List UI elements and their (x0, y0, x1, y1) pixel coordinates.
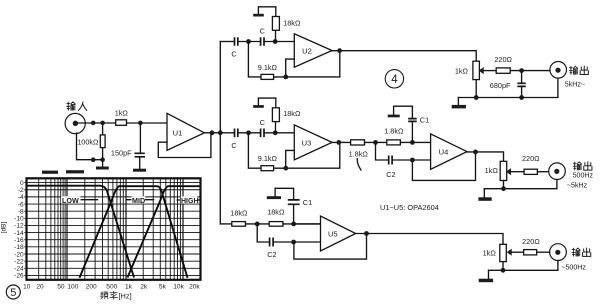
node dot U2 nA (246, 39, 251, 44)
svg-text:500Hz: 500Hz (573, 171, 594, 179)
svg-text:-20: -20 (14, 251, 24, 258)
node dot U2 fb (283, 75, 288, 80)
MID label (132, 196, 146, 205)
node dot b2 (100, 157, 105, 162)
wire (265, 41, 295, 43)
wire pot B wiper to 220 (511, 171, 524, 173)
output RCA connector A (550, 62, 567, 79)
svg-text:C: C (231, 50, 236, 59)
wire U3 feedback bottom (248, 133, 339, 168)
wire (238, 132, 260, 134)
node dot A3 (474, 95, 479, 100)
node dot U1 out (210, 130, 215, 135)
wire U2 inverting input stub (286, 59, 295, 77)
wire vertical distribution branch (219, 42, 221, 224)
svg-text:LOW: LOW (62, 196, 79, 205)
svg-text:-6: -6 (18, 201, 24, 208)
svg-text:HIGH: HIGH (181, 198, 199, 205)
node dot A1 (519, 68, 524, 73)
node dot U2 out (337, 48, 342, 53)
svg-text:1kΩ: 1kΩ (455, 67, 469, 76)
svg-text:5k: 5k (159, 283, 167, 290)
svg-text:18kΩ: 18kΩ (283, 18, 301, 27)
node dot U3 nB (273, 130, 278, 135)
wire (246, 223, 270, 225)
svg-text:680pF: 680pF (490, 81, 511, 90)
wire input to U1 (78, 122, 167, 124)
svg-text:150pF: 150pF (111, 148, 132, 157)
svg-text:20k: 20k (189, 283, 200, 290)
svg-text:50: 50 (57, 283, 65, 290)
node dot U4 nB (410, 140, 415, 145)
svg-text:1kΩ: 1kΩ (483, 249, 497, 258)
svg-text:C1: C1 (420, 115, 429, 124)
frequency response graph horizontal grid (24, 183, 200, 276)
svg-text:1kΩ: 1kΩ (115, 108, 129, 117)
node dot U2 nB (273, 39, 278, 44)
MID label leader dashes (126, 199, 153, 201)
node dot U5 out (364, 231, 369, 236)
resistor 220 (C) (524, 250, 537, 255)
ground (bus A) (452, 98, 466, 109)
capacitor C2 feedback (U4) (376, 142, 431, 164)
capacitor 680pF (A) (517, 71, 525, 98)
svg-text:C: C (260, 118, 265, 127)
svg-text:220Ω: 220Ω (522, 237, 540, 246)
svg-text:-2: -2 (18, 187, 24, 194)
resistor 100k to ground (100, 123, 105, 160)
svg-text:1kΩ: 1kΩ (485, 166, 499, 175)
node dot U3 nA (246, 130, 251, 135)
svg-text:U1: U1 (173, 129, 183, 138)
label 1.8kΩ with pointer (349, 150, 369, 170)
svg-text:-4: -4 (18, 194, 24, 201)
node dot B1 (501, 186, 506, 191)
svg-text:-12: -12 (14, 223, 24, 230)
wire (238, 41, 260, 43)
ground (input) (96, 160, 109, 170)
op-amp U4 (431, 134, 467, 169)
node dot b1 (91, 157, 96, 162)
ground (U5 C1) (267, 196, 281, 199)
wire 220 to output jack B (537, 171, 548, 173)
ground (U4 C1) (388, 115, 400, 118)
svg-text:220Ω: 220Ω (522, 154, 540, 163)
figure number circle 5 (6, 285, 20, 299)
node dot U3 fb (283, 166, 288, 171)
x axis tick labels (23, 283, 200, 290)
wire U1 feedback loop (158, 134, 211, 158)
HIGH label leader dashes (177, 199, 200, 201)
wire pot A bottom (475, 80, 477, 98)
op-amp U3 (294, 125, 332, 160)
wire U2 feedback bottom (248, 42, 339, 77)
wire 220 to output jack C (537, 251, 550, 253)
svg-text:U5: U5 (328, 230, 338, 239)
resistor 220 (B) (524, 169, 537, 174)
resistor 18k second (U5) (269, 222, 283, 227)
svg-text:-18: -18 (14, 244, 24, 251)
figure number circle 4 (385, 70, 403, 88)
resistor 220 (A) (496, 68, 510, 73)
wire branch to U2 input chain (220, 41, 234, 43)
svg-text:500: 500 (106, 283, 117, 290)
svg-text:9.1kΩ: 9.1kΩ (258, 154, 278, 163)
input label 输入 (67, 102, 87, 111)
output RCA connector B (549, 163, 566, 180)
label 输出 (C) (572, 248, 591, 256)
svg-text:2k: 2k (140, 283, 148, 290)
wire (365, 141, 387, 143)
svg-text:-22: -22 (14, 258, 24, 265)
node dot A2 (519, 95, 524, 100)
wire U5 noninverting input (294, 223, 321, 225)
svg-text:5kHz~: 5kHz~ (565, 81, 585, 89)
node dot U5 nB (291, 222, 296, 227)
svg-text:-10: -10 (14, 216, 24, 223)
ground (bus C) (479, 270, 493, 282)
ground (U3 18k) (253, 105, 264, 108)
svg-text:-16: -16 (14, 237, 24, 244)
wire 220 to output jack A (510, 70, 550, 72)
svg-text:18kΩ: 18kΩ (283, 109, 301, 118)
svg-text:0: 0 (20, 180, 24, 187)
wire (283, 223, 321, 225)
wire ground bus C (489, 261, 558, 271)
capacitor 150pF to ground (134, 123, 145, 169)
LOW label (61, 196, 81, 205)
y axis labels [dB] (14, 180, 24, 280)
svg-text:5: 5 (10, 287, 16, 299)
node dot a2 (100, 121, 105, 126)
wire U3 output (332, 141, 351, 143)
node dot U5 nA (255, 222, 260, 227)
svg-text:10k: 10k (173, 283, 184, 290)
wire pot C wiper to 220 (511, 251, 523, 253)
wire U2 output to pot A (332, 51, 476, 62)
HIGH label (181, 196, 199, 205)
svg-text:C1: C1 (303, 198, 312, 207)
wire pot B bottom (503, 181, 505, 189)
x axis unit label 频率[Hz] (101, 291, 132, 300)
node dot U4 fb (410, 158, 415, 163)
wire ground bus B (484, 180, 557, 189)
node dot a1 (91, 121, 96, 126)
svg-text:18kΩ: 18kΩ (267, 208, 285, 217)
resistor 18k first (U5) (232, 222, 246, 227)
node dot C1b (501, 268, 506, 273)
svg-text:C2: C2 (267, 250, 276, 259)
curve LOW (27, 186, 135, 278)
wire U5 output to pot C (356, 234, 503, 245)
svg-text:C: C (260, 27, 265, 36)
svg-text:C: C (231, 141, 236, 150)
wire (265, 132, 295, 134)
capacitor C (U3 second) (261, 129, 264, 138)
svg-text:-8: -8 (18, 209, 24, 216)
wire U5 feedback loop (294, 234, 367, 260)
potentiometer 1k (A) (473, 61, 484, 79)
svg-text:10: 10 (23, 283, 31, 290)
curve HIGH (128, 186, 201, 277)
input RCA connector J1 (65, 113, 85, 133)
svg-text:~500Hz: ~500Hz (561, 263, 586, 271)
curve MID (80, 186, 188, 278)
resistor 1.8k series (U4 in) (351, 140, 365, 145)
resistor 18k to ground (U3) (258, 98, 279, 133)
svg-text:-24: -24 (14, 266, 24, 273)
wire input shield ground run (77, 133, 103, 160)
wire pot A wiper to 220 (483, 70, 496, 72)
svg-text:100: 100 (67, 283, 78, 290)
op-amp U1 (167, 113, 204, 150)
label 输出 (B) (573, 162, 592, 170)
resistor 9.1k feedback (U3) (261, 166, 274, 171)
ground (bus B) (478, 189, 491, 201)
svg-text:20: 20 (36, 283, 44, 290)
ground (150pF) (133, 169, 146, 172)
output RCA connector C (550, 244, 567, 261)
wire ground bus A (458, 78, 558, 97)
resistor 1.8k second (U4) (387, 140, 401, 145)
wire (400, 141, 430, 143)
svg-text:U1~U5: OPA2604: U1~U5: OPA2604 (380, 203, 439, 212)
svg-text:[dB]: [dB] (1, 221, 8, 233)
node dot U4 out (473, 150, 478, 155)
node dot U4 nA (373, 140, 378, 145)
wire U4 feedback loop (412, 152, 475, 180)
wire U1 output to branch node (204, 132, 234, 134)
resistor 9.1k feedback (U2) (261, 74, 274, 79)
svg-text:100kΩ: 100kΩ (77, 137, 99, 146)
op-amp U5 (321, 216, 356, 251)
node dot U5 fb (291, 240, 296, 245)
node dot U3 out (336, 140, 341, 145)
wire U3 inverting input stub (286, 150, 295, 168)
svg-text:U4: U4 (439, 148, 449, 157)
svg-text:~5kHz: ~5kHz (567, 182, 588, 190)
scan artifact bar 2 (66, 170, 84, 173)
wire branch to U5 input chain (220, 223, 232, 225)
capacitor C2 feedback (U5) (257, 224, 293, 247)
svg-text:18kΩ: 18kΩ (230, 208, 248, 217)
svg-text:MID: MID (132, 196, 145, 205)
resistor 18k to ground (U2) (258, 7, 279, 42)
wire pot C bottom (502, 262, 504, 271)
svg-text:9.1kΩ: 9.1kΩ (258, 63, 278, 72)
svg-text:U2: U2 (302, 47, 312, 56)
svg-text:1.8kΩ: 1.8kΩ (349, 150, 369, 159)
LOW label leader line (81, 199, 98, 201)
capacitor C (U2 second) (261, 37, 264, 46)
svg-text:[Hz]: [Hz] (119, 292, 132, 301)
capacitor C1 to ground (U4) (394, 106, 417, 142)
svg-text:200: 200 (86, 283, 97, 290)
svg-text:1.8kΩ: 1.8kΩ (384, 126, 404, 135)
label 输出 (A) (569, 66, 588, 74)
capacitor C (U2 first) (235, 37, 238, 46)
frequency response graph vertical grid (39, 178, 183, 279)
svg-text:-14: -14 (14, 230, 24, 237)
node dot branch (218, 130, 223, 135)
wire U5 inverting input (294, 241, 321, 243)
potentiometer 1k (B) (500, 161, 511, 180)
graph border frame (27, 178, 201, 279)
svg-text:4: 4 (391, 74, 398, 86)
svg-text:220Ω: 220Ω (494, 55, 512, 64)
scan artifact bar 1 (42, 171, 58, 174)
svg-text:-26: -26 (14, 273, 24, 280)
capacitor C (U3 first) (235, 129, 238, 138)
node dot a3 (138, 121, 143, 126)
op-amp U2 (294, 34, 332, 67)
wire U4 output to pot B (467, 152, 504, 161)
potentiometer 1k (C) (500, 244, 512, 261)
svg-text:1k: 1k (125, 283, 133, 290)
resistor 1k (input series) (116, 120, 127, 126)
ground (U2 18k) (253, 14, 264, 17)
svg-text:U3: U3 (302, 139, 312, 148)
capacitor C1 to ground (U5) (275, 188, 300, 224)
svg-text:C2: C2 (386, 170, 395, 179)
